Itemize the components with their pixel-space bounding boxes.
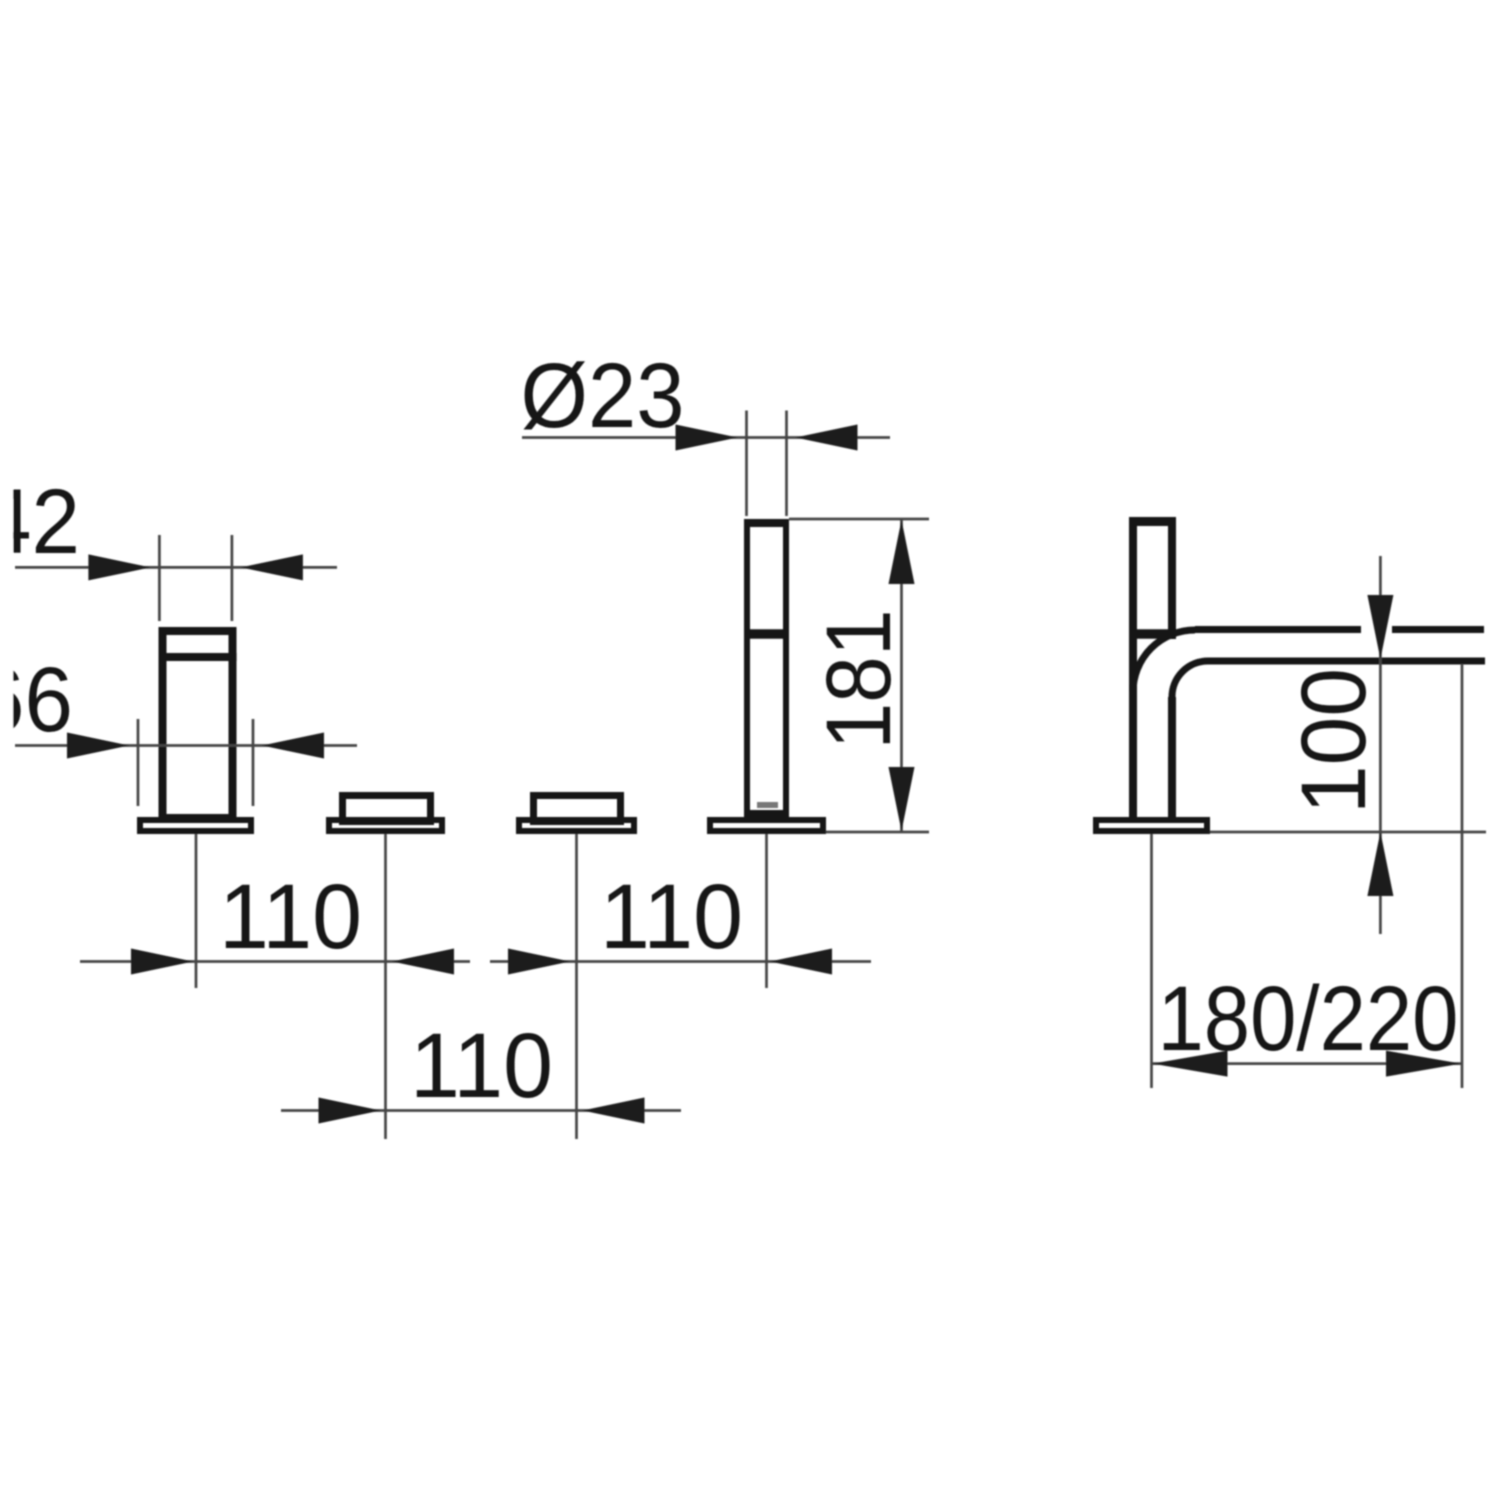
dimension 110 lower line (281, 1109, 681, 1112)
dimension 181 reference line bottom (826, 831, 929, 834)
base plate 1 (lever) (140, 820, 251, 831)
knob cap 2 (534, 796, 621, 822)
svg-text:110: 110 (600, 866, 743, 968)
dimension 42 extension line right (231, 535, 234, 621)
dimension 100 reference line (deck level) (1210, 831, 1486, 834)
dimension 180/220 extension line right (1461, 664, 1464, 1088)
base plate 2 (knob 1) (329, 820, 442, 831)
dimension 100 line (1379, 556, 1382, 934)
center line 1 (lever) (195, 834, 198, 988)
svg-text:100: 100 (1283, 668, 1385, 814)
spout pipe bottom line (1208, 658, 1485, 665)
center line 4 (hand shower) (765, 834, 768, 988)
hand shower cylinder (744, 523, 789, 816)
svg-text:180/220: 180/220 (1158, 968, 1459, 1070)
dimension 180/220 line (1152, 1062, 1463, 1065)
spout divider bar (side view) (1129, 629, 1176, 639)
spout pipe top line (left of gap) (1195, 626, 1361, 633)
dimension Ø23 arrow left (676, 425, 738, 451)
base plate 5 (spout, side view) (1096, 820, 1207, 831)
dimension 110 upper line left part (80, 960, 470, 963)
base plate 4 (hand shower) (710, 820, 823, 831)
svg-text:110: 110 (410, 1015, 553, 1117)
knob cap 1 (343, 796, 431, 822)
lever handle body (front view) (159, 631, 237, 818)
dimension 181 line (900, 519, 903, 832)
dimension Ø23 extension line right (785, 411, 788, 517)
dimension 180/220 arrow right (1386, 1051, 1461, 1077)
spout pipe top line (right of gap) (1392, 626, 1484, 633)
dimension 110 upper arrow 4 (770, 949, 832, 975)
svg-text:110: 110 (219, 866, 362, 968)
dimension 181 reference line top (789, 518, 929, 521)
center line 3 (knob 2) (575, 834, 578, 1139)
dimension 66 extension line left (137, 719, 140, 806)
dimension 110 lower arrow right (583, 1098, 645, 1124)
hand shower logo mark (757, 802, 778, 808)
dimension 110 upper line right part (490, 960, 871, 963)
dimension 110 upper arrow 1 (131, 949, 193, 975)
spout body right edge upper segment (1168, 517, 1176, 639)
dimension 110 upper arrow 2 (392, 949, 454, 975)
spout outer bend curve (1133, 630, 1195, 692)
dimension 100 arrow down (1367, 595, 1393, 659)
dimension 42 arrow left (88, 554, 150, 580)
dimension 66 line (15, 744, 357, 747)
dimension 180/220 extension line left (1150, 834, 1153, 1088)
dimension 110 lower arrow left (319, 1098, 381, 1124)
dimension Ø23 line (522, 436, 890, 439)
spout body left edge (side view) (1129, 517, 1137, 818)
center line 2 (knob 1) (384, 834, 387, 1139)
dimension 42 extension line left (158, 535, 161, 621)
dimension 100 arrow up (1367, 832, 1393, 896)
dimension 42 line (15, 566, 337, 569)
left crop gutter (0, 0, 13, 1500)
dimension 181 arrow up (889, 520, 915, 584)
spout handle top bar (side view) (1129, 517, 1176, 526)
dimension 66 extension line right (252, 719, 255, 806)
dimension 42 arrow right (241, 554, 303, 580)
dimension 181 arrow down (889, 767, 915, 831)
base plate 3 (knob 2) (519, 820, 634, 831)
dimension 180/220 arrow left (1153, 1051, 1228, 1077)
svg-text:181: 181 (808, 610, 910, 750)
spout body right edge lower segment (1168, 697, 1176, 818)
dimension 66 arrow right (262, 733, 324, 759)
svg-text:Ø23: Ø23 (521, 345, 685, 447)
dimension Ø23 extension line left (745, 411, 748, 517)
dimension 110 upper arrow 3 (508, 949, 570, 975)
spout inner bend curve (1172, 661, 1208, 697)
dimension Ø23 arrow right (796, 425, 858, 451)
dimension 66 arrow left (67, 733, 129, 759)
